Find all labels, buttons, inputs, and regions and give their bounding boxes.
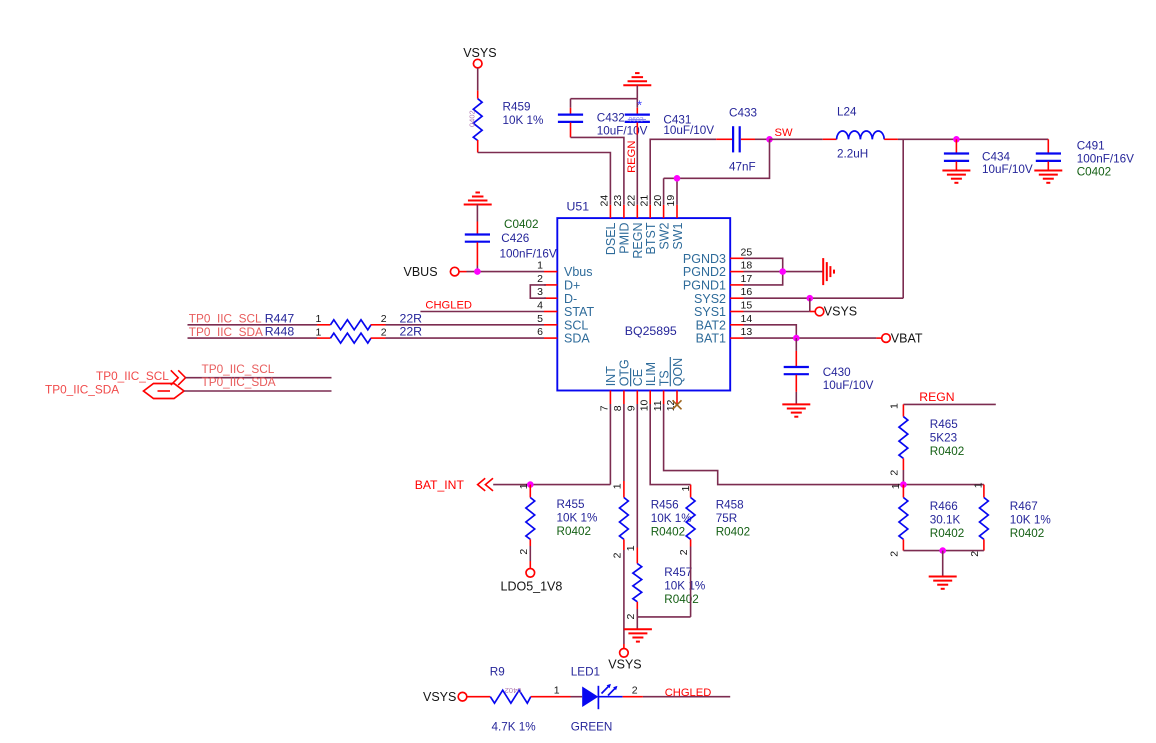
- wire pin 11 TS to resistor divider node: [664, 404, 984, 485]
- svg-text:PGND3: PGND3: [683, 252, 726, 266]
- inductor L24 2.2uH: [770, 105, 898, 160]
- resistor R467 10K 1% R0402: [969, 482, 1051, 557]
- U51 pin 13 BAT1: [696, 326, 753, 346]
- svg-text:13: 13: [741, 326, 753, 338]
- capacitor C434 10uF/10V: [944, 136, 1033, 176]
- svg-text:*: *: [637, 98, 642, 113]
- svg-text:0402: 0402: [505, 686, 522, 695]
- svg-text:1: 1: [518, 483, 530, 489]
- svg-text:19: 19: [665, 195, 677, 207]
- ground (below R457): [624, 617, 652, 642]
- svg-text:SYS1: SYS1: [694, 305, 726, 319]
- svg-text:2: 2: [537, 273, 543, 285]
- svg-text:U51: U51: [567, 200, 590, 214]
- svg-text:10uF/10V: 10uF/10V: [982, 163, 1033, 176]
- node SW junction: [766, 127, 793, 143]
- svg-text:C432: C432: [597, 112, 625, 125]
- svg-text:25: 25: [741, 246, 753, 258]
- svg-text:R9: R9: [490, 665, 505, 678]
- svg-text:3: 3: [537, 286, 543, 298]
- svg-text:TP0_IIC_SCL: TP0_IIC_SCL: [189, 312, 262, 326]
- svg-text:1: 1: [316, 326, 322, 338]
- svg-text:2: 2: [381, 313, 387, 325]
- svg-text:5: 5: [537, 313, 543, 325]
- svg-text:SW2: SW2: [657, 222, 671, 249]
- wire D+/D- short loop (pins 2-3): [530, 285, 546, 298]
- svg-text:1: 1: [890, 483, 902, 489]
- net label BAT_INT with off-page chevron: [415, 478, 493, 492]
- U51 pin 9 CE (overbar): [626, 368, 646, 411]
- svg-text:SW1: SW1: [671, 222, 685, 249]
- svg-text:10uF/10V: 10uF/10V: [663, 124, 714, 137]
- U51 pin 22 REGN: [626, 195, 646, 259]
- svg-text:PMID: PMID: [618, 223, 632, 254]
- capacitor C430 10uF/10V: [784, 338, 874, 404]
- wire L24 output to C434/C491 and down to SYS2: [898, 139, 1048, 298]
- svg-text:R459: R459: [503, 101, 531, 114]
- svg-text:2.2uH: 2.2uH: [837, 148, 868, 161]
- svg-text:TP0_IIC_SCL: TP0_IIC_SCL: [202, 362, 275, 376]
- svg-text:15: 15: [741, 300, 753, 312]
- U51 pin 17 PGND1: [683, 273, 752, 293]
- svg-text:R0402: R0402: [930, 445, 964, 458]
- svg-text:VSYS: VSYS: [824, 305, 857, 319]
- wire pin 21 BTST up to C433: [650, 139, 716, 205]
- node VBUS: [404, 265, 467, 279]
- svg-text:R0402: R0402: [651, 526, 685, 539]
- U51 pin 23 PMID: [612, 195, 632, 254]
- wire R466/R467 bottoms to ground: [903, 547, 984, 576]
- svg-text:R0402: R0402: [1010, 527, 1044, 540]
- node VSYS (top): [463, 46, 496, 68]
- svg-text:R0402: R0402: [557, 525, 591, 538]
- svg-text:GREEN: GREEN: [571, 720, 613, 733]
- capacitor C432 10uF/10V: [558, 99, 648, 138]
- resistor R457 10K 1% R0402 (pin 9 CE to GND): [625, 404, 705, 620]
- resistor R459 10K 1%: [468, 68, 544, 153]
- svg-text:1: 1: [537, 260, 543, 272]
- svg-text:PGND2: PGND2: [683, 265, 726, 279]
- svg-text:VBAT: VBAT: [891, 331, 923, 345]
- U51 pin 6 SDA: [537, 326, 590, 346]
- svg-text:R457: R457: [664, 566, 692, 579]
- svg-text:17: 17: [741, 273, 753, 285]
- resistor R456 10K 1% R0402 (pin 8 OTG to VSYS): [611, 404, 691, 649]
- U51 pin 16 SYS2: [694, 286, 752, 306]
- svg-text:CHGLED: CHGLED: [665, 687, 712, 699]
- U51 pin 24 DSEL: [599, 195, 619, 255]
- svg-text:Vbus: Vbus: [564, 265, 593, 279]
- ground (below C430): [782, 404, 810, 416]
- svg-text:R465: R465: [930, 418, 958, 431]
- svg-text:DSEL: DSEL: [604, 222, 618, 255]
- svg-text:BAT2: BAT2: [696, 318, 726, 332]
- ground (sideways, PGND): [823, 258, 834, 285]
- svg-text:7: 7: [599, 405, 611, 411]
- ground (top, above REGN caps): [623, 73, 651, 85]
- U51 pin 8 OTG: [612, 359, 632, 411]
- ground (below R466/R467): [929, 577, 957, 589]
- U51 pin 14 BAT2: [696, 313, 753, 333]
- svg-text:SYS2: SYS2: [694, 292, 726, 306]
- svg-text:R466: R466: [930, 500, 958, 513]
- svg-text:TP0_IIC_SDA: TP0_IIC_SDA: [202, 375, 276, 389]
- wire VBUS to pin 1: [467, 268, 545, 275]
- op-amp/IC U51 BQ25895 body: [557, 200, 730, 391]
- svg-text:BTST: BTST: [644, 222, 658, 254]
- svg-text:10K 1%: 10K 1%: [557, 512, 598, 525]
- svg-text:D+: D+: [564, 279, 580, 293]
- svg-text:1: 1: [973, 482, 985, 488]
- svg-text:R448: R448: [265, 325, 295, 339]
- svg-text:9: 9: [626, 405, 638, 411]
- svg-text:1: 1: [554, 684, 560, 696]
- U51 pin 1 Vbus: [537, 260, 592, 280]
- svg-text:100nF/16V: 100nF/16V: [500, 248, 557, 261]
- svg-text:TP0_IIC_SDA: TP0_IIC_SDA: [189, 325, 263, 339]
- svg-text:SW: SW: [775, 127, 793, 139]
- svg-text:8: 8: [612, 405, 624, 411]
- resistor R9 4.7K 1%: [467, 665, 582, 733]
- svg-text:VSYS: VSYS: [423, 690, 456, 704]
- svg-text:20: 20: [652, 195, 664, 207]
- svg-text:R456: R456: [651, 499, 679, 512]
- svg-text:0402: 0402: [468, 110, 477, 127]
- svg-text:R447: R447: [265, 311, 295, 325]
- wire TP0_IIC_SCL stub: [186, 362, 332, 378]
- svg-text:10uF/10V: 10uF/10V: [823, 379, 874, 392]
- ground (below C434): [942, 171, 970, 183]
- wire TP0_IIC_SDA stub: [184, 375, 332, 391]
- wire ground to C432/C431 top node: [571, 85, 638, 98]
- svg-text:100nF/16V: 100nF/16V: [1077, 152, 1134, 165]
- svg-text:2: 2: [889, 470, 901, 476]
- svg-text:L24: L24: [837, 105, 857, 118]
- svg-text:CHGLED: CHGLED: [425, 300, 472, 312]
- svg-text:INT: INT: [604, 366, 618, 387]
- svg-text:BAT1: BAT1: [696, 332, 726, 346]
- svg-text:TP0_IIC_SDA: TP0_IIC_SDA: [45, 383, 119, 397]
- svg-text:C434: C434: [982, 151, 1010, 164]
- svg-text:22: 22: [626, 195, 638, 207]
- svg-text:ILIM: ILIM: [644, 362, 658, 386]
- svg-text:REGN: REGN: [626, 141, 638, 173]
- net label REGN (right) and wire: [903, 390, 995, 405]
- svg-text:BQ25895: BQ25895: [625, 324, 677, 338]
- svg-text:LED1: LED1: [571, 665, 600, 678]
- svg-text:2: 2: [625, 614, 637, 620]
- svg-text:SDA: SDA: [564, 332, 590, 346]
- svg-text:PGND1: PGND1: [683, 279, 726, 293]
- svg-text:C491: C491: [1077, 140, 1105, 153]
- wire pin 10 ILIM to R458: [650, 404, 690, 485]
- svg-text:R0402: R0402: [930, 527, 964, 540]
- svg-text:22R: 22R: [400, 311, 423, 325]
- wire PGND3 pin 25: [744, 258, 783, 285]
- svg-text:1: 1: [625, 545, 637, 551]
- U51 pin 4 STAT: [537, 300, 594, 320]
- svg-text:2: 2: [518, 549, 530, 555]
- svg-text:1: 1: [316, 313, 322, 325]
- ground (above C426): [464, 193, 492, 205]
- U51 pin 20 SW2: [652, 195, 672, 250]
- wire SYS2 pin 16 to L24 output: [744, 295, 904, 312]
- U51 pin 5 SCL: [537, 313, 588, 333]
- svg-text:SCL: SCL: [564, 318, 588, 332]
- node VSYS (LED circuit): [423, 690, 467, 704]
- wire BAT1 pin 13 / node VBAT: [744, 331, 923, 345]
- svg-text:10K 1%: 10K 1%: [651, 512, 692, 525]
- off-page connector TP0_IIC_SDA (hexagon): [45, 383, 184, 399]
- svg-text:5K23: 5K23: [930, 431, 957, 444]
- svg-text:2: 2: [632, 684, 638, 696]
- resistor R466 30.1K R0402: [889, 483, 965, 557]
- resistor R448 22R on SDA wire: [188, 325, 545, 343]
- svg-text:11: 11: [652, 400, 664, 411]
- resistor R465 5K23 R0402: [889, 403, 965, 485]
- svg-text:CE: CE: [631, 369, 645, 386]
- svg-text:10: 10: [638, 399, 650, 411]
- resistor R458 75R R0402: [678, 485, 750, 617]
- capacitor C426 100nF/16V C0402: [465, 205, 557, 272]
- svg-text:C433: C433: [729, 106, 757, 119]
- svg-text:6: 6: [537, 326, 543, 338]
- U51 pin 3 D-: [537, 286, 577, 306]
- ground (below C491): [1034, 171, 1062, 183]
- node VSYS (bottom, R456): [608, 649, 641, 672]
- wire SW down to SW1/SW2 pins: [664, 139, 770, 178]
- svg-text:VBUS: VBUS: [404, 265, 438, 279]
- svg-text:23: 23: [612, 195, 624, 207]
- svg-text:TP0_IIC_SCL: TP0_IIC_SCL: [96, 369, 169, 383]
- svg-text:C0402: C0402: [504, 218, 538, 231]
- svg-text:QON: QON: [671, 358, 685, 386]
- svg-text:2: 2: [969, 551, 981, 557]
- svg-text:16: 16: [741, 286, 753, 298]
- svg-text:30.1K: 30.1K: [930, 514, 961, 527]
- svg-text:R0402: R0402: [664, 593, 698, 606]
- U51 pin 18 PGND2: [683, 260, 752, 280]
- svg-text:2: 2: [611, 552, 623, 558]
- capacitor C433 47nF: [716, 106, 769, 173]
- svg-text:VSYS: VSYS: [608, 657, 641, 671]
- U51 pin 25 PGND3: [683, 246, 752, 266]
- svg-text:R455: R455: [557, 498, 585, 511]
- wire R457 bottom to R458 bottom: [637, 616, 690, 618]
- resistor R455 10K 1% R0402: [518, 483, 598, 568]
- off-page connector TP0_IIC_SCL (chevron): [96, 369, 186, 385]
- svg-text:C430: C430: [823, 366, 851, 379]
- svg-text:OTG: OTG: [618, 359, 632, 386]
- svg-text:TS: TS: [657, 370, 671, 386]
- svg-text:10uF/10V: 10uF/10V: [597, 124, 648, 137]
- svg-text:BAT_INT: BAT_INT: [415, 478, 465, 492]
- U51 pin 10 ILIM: [638, 362, 658, 411]
- svg-text:22R: 22R: [400, 325, 423, 339]
- wire C432 bottom to pin 23 PMID: [571, 137, 624, 204]
- svg-text:REGN: REGN: [631, 223, 645, 259]
- U51 pin 19 SW1: [665, 195, 685, 250]
- U51 pin 11 TS: [652, 370, 672, 411]
- svg-text:21: 21: [638, 195, 650, 207]
- svg-text:75R: 75R: [716, 512, 737, 525]
- U51 pin 15 SYS1: [694, 300, 752, 320]
- svg-text:1: 1: [889, 403, 901, 409]
- svg-text:R458: R458: [716, 499, 744, 512]
- wire PGND2 pin 18 to ground: [744, 268, 824, 275]
- wire LED to CHGLED: [643, 687, 730, 699]
- svg-text:4.7K 1%: 4.7K 1%: [492, 720, 536, 733]
- svg-text:LDO5_1V8: LDO5_1V8: [501, 579, 563, 593]
- capacitor C491 100nF/16V C0402: [1036, 139, 1134, 178]
- svg-text:47nF: 47nF: [729, 161, 756, 174]
- svg-text:C426: C426: [501, 232, 529, 245]
- svg-text:REGN: REGN: [919, 390, 954, 404]
- svg-text:2: 2: [678, 549, 690, 555]
- svg-text:C0402: C0402: [1077, 165, 1111, 178]
- node LDO5_1V8: [501, 569, 563, 594]
- svg-text:10K 1%: 10K 1%: [503, 114, 544, 127]
- svg-text:VSYS: VSYS: [463, 46, 496, 60]
- wire R459 to pin 24 DSEL: [478, 153, 611, 205]
- LED LED1 GREEN: [571, 665, 643, 733]
- U51 pin 21 BTST: [638, 195, 658, 255]
- capacitor C431 10uF/10V (on REGN pin 22, with * and 0603 marking): [625, 98, 715, 205]
- net label CHGLED / wire to pin 4 STAT: [420, 300, 544, 312]
- svg-text:2: 2: [889, 551, 901, 557]
- svg-text:R0402: R0402: [716, 526, 750, 539]
- svg-text:1: 1: [611, 483, 623, 489]
- svg-text:24: 24: [599, 195, 611, 207]
- wire BAT_INT to pin 7 INT: [493, 404, 610, 488]
- node TS divider junction: [900, 481, 907, 488]
- svg-text:10K 1%: 10K 1%: [664, 579, 705, 592]
- wire BAT2 pin 14: [744, 325, 797, 338]
- svg-text:2: 2: [381, 326, 387, 338]
- svg-text:STAT: STAT: [564, 305, 594, 319]
- svg-text:4: 4: [537, 300, 543, 312]
- svg-text:10K 1%: 10K 1%: [1010, 514, 1051, 527]
- wire SYS1 pin 15 / node VSYS: [744, 305, 858, 319]
- U51 pin 2 D+: [537, 273, 580, 293]
- U51 pin 7 INT: [599, 366, 619, 412]
- svg-text:14: 14: [741, 313, 753, 325]
- svg-text:D-: D-: [564, 292, 577, 306]
- svg-text:18: 18: [741, 260, 753, 272]
- resistor R447 22R on SCL wire: [188, 311, 545, 329]
- U51 pin 12 QON (overbar, no-connect X): [665, 357, 685, 411]
- svg-text:R467: R467: [1010, 500, 1038, 513]
